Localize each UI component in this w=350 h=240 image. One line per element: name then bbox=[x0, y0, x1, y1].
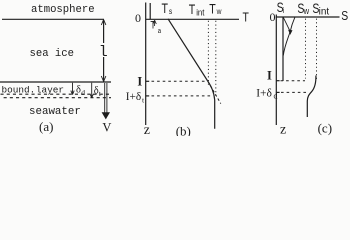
panel b: label T_s bbox=[162, 1, 173, 17]
svg-text:a: a bbox=[158, 28, 161, 36]
svg-text:T: T bbox=[189, 2, 196, 18]
panel c: label S_w bbox=[297, 0, 309, 16]
svg-text:0: 0 bbox=[135, 11, 141, 25]
panel a: thickness dimension up arrowhead bbox=[101, 20, 106, 25]
svg-text:int: int bbox=[196, 7, 205, 18]
svg-text:T: T bbox=[209, 1, 216, 17]
svg-text:atmosphere: atmosphere bbox=[31, 4, 95, 16]
svg-text:V: V bbox=[102, 120, 111, 134]
svg-text:0: 0 bbox=[270, 10, 276, 24]
panel a: delta_t arrow bbox=[90, 83, 93, 98]
panel a: boundary layer top line bbox=[0, 81, 111, 83]
panel c: label l+delta_d bbox=[256, 87, 277, 100]
panel c: S axis bbox=[276, 16, 340, 18]
panel b: z=l+delta_t tick bbox=[146, 95, 150, 97]
panel a: thickness dimension line lower shaft bbox=[103, 57, 105, 82]
panel b: label T_int bbox=[189, 2, 205, 18]
panel b: T_a pointer arrow bbox=[153, 20, 156, 26]
panel c: desalination funnel left arm bbox=[283, 18, 289, 31]
svg-text:d: d bbox=[274, 92, 278, 101]
panel a: growth velocity V arrowhead bbox=[102, 112, 110, 119]
panel b: T_int dotted vertical bbox=[207, 21, 209, 86]
panel b: dashed linear extension below interface bbox=[208, 82, 221, 104]
svg-text:I+δ: I+δ bbox=[256, 87, 272, 99]
panel a: ice surface line bbox=[2, 18, 104, 20]
svg-text:z: z bbox=[280, 122, 286, 136]
panel c: funnel arrowhead bbox=[288, 30, 292, 35]
panel b: label T_a bbox=[150, 20, 161, 36]
panel b: T_w dotted vertical bbox=[215, 21, 217, 98]
panel c: salinity transient curve with arrow bbox=[283, 17, 295, 55]
svg-text:T: T bbox=[150, 20, 155, 32]
panel a: delta_d arrow bbox=[71, 83, 74, 95]
panel c: z=l dashed horizontal bbox=[281, 80, 306, 82]
svg-text:S: S bbox=[341, 9, 348, 23]
svg-text:s: s bbox=[169, 6, 172, 16]
svg-text:int: int bbox=[319, 6, 330, 17]
panel c: z axis bbox=[275, 15, 277, 126]
panel b: temperature profile straight segment in ice bbox=[168, 19, 208, 82]
svg-text:sea ice: sea ice bbox=[30, 48, 75, 60]
panel c: label S_i bbox=[277, 0, 285, 16]
svg-text:I+δ: I+δ bbox=[126, 91, 141, 103]
svg-text:T: T bbox=[242, 10, 248, 24]
panel c: z=l tick bbox=[276, 80, 279, 82]
svg-text:(b): (b) bbox=[176, 123, 191, 136]
svg-text:z: z bbox=[144, 123, 150, 136]
svg-text:w: w bbox=[216, 6, 222, 16]
panel c: z=l+delta_d tick bbox=[276, 91, 279, 93]
panel b: z=l tick bbox=[146, 80, 150, 82]
panel b: z axis bbox=[145, 3, 147, 126]
panel b: label l+delta_t bbox=[126, 91, 145, 104]
svg-text:I: I bbox=[137, 74, 142, 88]
panel a: dashed interface row 1 bbox=[1, 93, 112, 95]
svg-text:d: d bbox=[81, 88, 85, 97]
panel b: temperature profile curve in boundary layer and water bbox=[208, 82, 215, 129]
panel c: salinity profile curve below interface bbox=[307, 76, 316, 118]
panel c: z=l+delta_d dashed horizontal bbox=[281, 91, 306, 93]
panel b: z=l+delta_t dashed horizontal bbox=[152, 95, 213, 97]
svg-text:seawater: seawater bbox=[29, 106, 81, 118]
panel c: label S_int bbox=[312, 0, 329, 17]
svg-text:I: I bbox=[267, 69, 272, 83]
svg-text:(a): (a) bbox=[39, 119, 53, 134]
panel b: label T_w bbox=[209, 1, 222, 17]
panel c: S_w dotted vertical bbox=[305, 19, 307, 79]
panel a: thickness dimension down arrowhead bbox=[101, 76, 106, 81]
panel b: z=l dashed horizontal bbox=[152, 80, 208, 82]
panel a: dashed interface row 2 bbox=[1, 97, 112, 99]
svg-text:(c): (c) bbox=[318, 120, 332, 135]
panel a: growth velocity V double-line arrow shaft bbox=[104, 83, 106, 113]
panel c: S_i salinity vertical line in ice bbox=[282, 17, 284, 81]
svg-text:T: T bbox=[162, 1, 169, 17]
panel b: T_a tick line above axis bbox=[149, 3, 151, 19]
panel a: thickness dimension line upper shaft bbox=[103, 20, 105, 43]
svg-text:w: w bbox=[303, 5, 310, 16]
panel c: S_int dotted vertical bbox=[316, 19, 318, 79]
panel b: T axis bbox=[146, 18, 239, 20]
